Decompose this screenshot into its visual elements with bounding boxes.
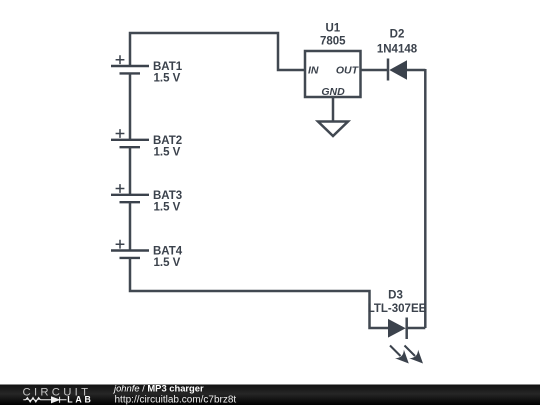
svg-text:1.5 V: 1.5 V [154,201,181,213]
ground [318,122,348,137]
svg-text:D3: D3 [388,290,403,302]
wire right rail [424,69,427,328]
svg-text:LAB: LAB [67,394,91,404]
U1 pin label IN [308,64,319,76]
svg-text:IN: IN [308,64,319,76]
BAT1 label [153,61,183,85]
battery BAT2 [111,129,149,147]
svg-text:D2: D2 [390,29,405,41]
D3 label [368,290,427,316]
wire BAT2 to BAT3 [129,147,132,195]
BAT2 label [153,135,182,159]
U1 pin label GND [321,86,345,98]
footer bar [0,385,540,405]
U1 pin label OUT [336,64,360,76]
svg-text:LTL-307EE: LTL-307EE [368,303,427,315]
wire U1 OUT to D2 [361,69,388,72]
svg-text:OUT: OUT [336,64,360,76]
wire U1 GND to ground [332,97,335,122]
wire battery positive to U1 IN [130,33,305,70]
footer title text [112,383,236,405]
battery BAT4 [111,240,149,258]
svg-text:BAT1: BAT1 [153,61,183,73]
svg-text:BAT2: BAT2 [153,135,182,147]
svg-text:1N4148: 1N4148 [377,44,418,56]
svg-text:1.5 V: 1.5 V [154,73,181,85]
svg-text:U1: U1 [325,23,340,35]
CircuitLab logo [23,387,91,405]
wire D2 to right rail [407,69,425,72]
BAT3 label [153,190,182,214]
svg-text:7805: 7805 [320,36,346,48]
battery BAT3 [111,184,149,202]
svg-text:BAT4: BAT4 [153,246,183,258]
wire battery negative to D3 anode [130,258,388,328]
wire D3 cathode to right rail [407,327,426,330]
diode D2 [388,59,407,81]
svg-text:BAT3: BAT3 [153,190,182,202]
svg-text:1.5 V: 1.5 V [154,257,181,269]
voltage regulator U1 [305,51,361,97]
BAT4 label [153,246,183,270]
wire BAT1 to BAT2 [129,73,132,139]
U1 label [320,23,346,48]
D2 label [377,29,418,56]
LED D3 [388,318,423,364]
svg-text:http://circuitlab.com/c7brz8t: http://circuitlab.com/c7brz8t [115,394,237,405]
svg-text:johnfe / MP3 charger: johnfe / MP3 charger [112,383,204,394]
svg-text:1.5 V: 1.5 V [154,146,181,158]
wire BAT3 to BAT4 [129,202,132,250]
battery BAT1 [111,55,149,73]
svg-text:GND: GND [321,86,345,98]
